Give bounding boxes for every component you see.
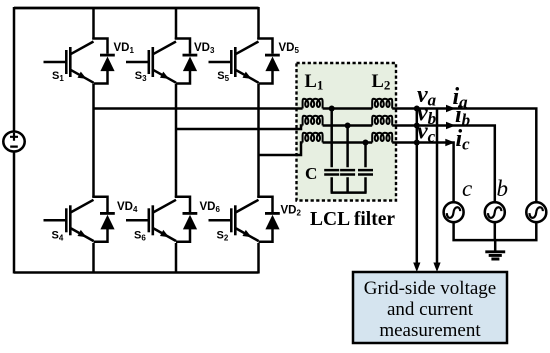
wire: phase B from leg2 with jog: [176, 126, 303, 130]
node dot vb: [414, 123, 420, 129]
svg-text:C: C: [305, 164, 317, 183]
wire: left DC link lower: [13, 152, 16, 274]
DC source V: [3, 132, 24, 152]
transistor S1 + diode VD1: [44, 38, 115, 84]
wire: phase A from leg1: [94, 107, 303, 110]
transistor S2 + diode VD2: [209, 196, 280, 242]
LCL filter box: [297, 63, 397, 201]
wire: current measurement drop: [436, 109, 439, 265]
wire: grid line a: [392, 109, 536, 203]
inductor L2 row b: [372, 116, 392, 126]
wire: source b lower lead: [494, 222, 497, 240]
inductor L2 row c: [372, 133, 392, 143]
inductor L2 row a: [372, 99, 392, 109]
capacitor C row a: [324, 170, 339, 174]
wire: phase C from leg3 with jog: [259, 143, 303, 156]
inductor L1 row c: [303, 133, 323, 143]
DC bus top rail: [14, 7, 259, 10]
node dot vc: [414, 140, 420, 146]
node dot va: [414, 106, 420, 112]
node dot row b / cap 2 tap: [345, 123, 351, 129]
arrow into measurement box 1: [413, 263, 420, 273]
wire: cap1 lead: [330, 109, 333, 193]
svg-text:measurement: measurement: [379, 320, 481, 341]
capacitor C row b: [340, 170, 355, 174]
AC source phase c: [444, 202, 464, 222]
wire: cap3 lead: [364, 143, 367, 193]
wire: leg 1 vertical: [92, 7, 95, 274]
DC bus bottom rail: [14, 271, 259, 274]
transistor S3 + diode VD3: [126, 38, 197, 84]
inductor L1 row a: [303, 99, 323, 109]
wire: row c L1-L2: [323, 141, 373, 144]
svg-text:Grid-side voltage: Grid-side voltage: [364, 278, 496, 299]
wire: leg 3 vertical: [257, 7, 260, 274]
svg-text:and current: and current: [387, 299, 474, 320]
node dot row c / cap 3 tap: [363, 140, 369, 146]
wire: leg 2 vertical: [175, 7, 178, 274]
current arrow ic: [445, 139, 455, 146]
node dot row a / cap 1 tap: [329, 106, 335, 112]
inductor L1 row b: [303, 116, 323, 126]
wire: row a L1-L2: [323, 107, 373, 110]
svg-text:b: b: [497, 176, 509, 201]
wire: voltage measurement drop: [416, 109, 419, 265]
svg-text:LCL filter: LCL filter: [310, 209, 395, 230]
AC source phase a: [526, 202, 546, 222]
wire: sources bottom bus: [454, 222, 537, 240]
AC source phase b: [485, 202, 505, 222]
measurement box: [353, 272, 507, 343]
transistor S4 + diode VD4: [44, 196, 115, 242]
wire: row b L1-L2: [323, 124, 373, 127]
current arrow ib: [446, 122, 456, 129]
wire: cap2 lead: [346, 126, 349, 193]
arrow into measurement box 2: [433, 263, 440, 273]
transistor S5 + diode VD5: [209, 38, 280, 84]
svg-text:c: c: [462, 176, 472, 201]
wire: left DC link upper: [13, 7, 16, 132]
wire: grid line c: [392, 143, 453, 203]
current arrow ia: [446, 105, 456, 112]
ground: [494, 240, 497, 252]
wire: grid line b: [392, 126, 495, 203]
transistor S6 + diode VD6: [126, 196, 197, 242]
capacitor C row c: [358, 170, 373, 174]
wire: capacitor common bus: [331, 191, 367, 194]
